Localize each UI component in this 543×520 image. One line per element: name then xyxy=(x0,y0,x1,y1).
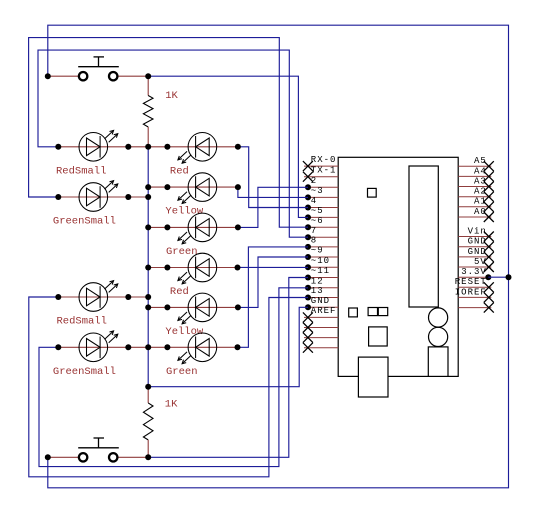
LED D7 Green symbol xyxy=(178,213,217,244)
wire: RedSmall1 to pin 7 xyxy=(38,50,308,237)
wire: Green2 to pin 8 xyxy=(238,247,309,347)
wire: middle rail (blue) between LED rows xyxy=(147,147,149,387)
svg-text:A5: A5 xyxy=(474,156,487,166)
U1 pin RX-0 no-connect X xyxy=(303,161,313,171)
wire: R2 bottom to pin ~11 xyxy=(148,278,308,458)
resistor R1 bottom lead xyxy=(147,127,149,147)
svg-text:RESET: RESET xyxy=(455,277,487,287)
U1 left pin NC stub xyxy=(304,347,338,349)
svg-text:Green: Green xyxy=(166,246,198,258)
svg-text:Yellow: Yellow xyxy=(165,326,204,338)
U1 left pin 12 stub xyxy=(308,287,338,289)
U1 crystal square xyxy=(369,327,388,346)
U1 left pin 2 stub xyxy=(308,186,338,188)
resistor R2 1K top lead xyxy=(147,387,149,403)
wire red: bottom button row left segment xyxy=(48,456,79,458)
U1 right pin Vin stub xyxy=(458,236,491,238)
LED D9 Yellow symbol xyxy=(178,293,217,324)
svg-text:1K: 1K xyxy=(165,399,178,411)
node: right rail / 3.3V xyxy=(506,274,512,280)
U1 pin NC no-connect X xyxy=(303,333,313,343)
U1 pin ~10 terminal dot xyxy=(305,264,311,270)
wire: R2 top to pin GND xyxy=(148,307,308,386)
U1 double square component xyxy=(368,308,388,316)
U1 right pin A1 stub xyxy=(458,206,491,208)
U1 pin GND no-connect X xyxy=(484,242,494,252)
wire: 3.3V rail from button S1 via top/right/bottom to button S2 xyxy=(48,25,509,488)
U1 pin ~9 terminal dot xyxy=(305,254,311,260)
svg-text:Yellow: Yellow xyxy=(165,206,204,218)
U1 pin A2 no-connect X xyxy=(484,192,494,202)
D2 cathode xyxy=(125,194,131,200)
U1 left pin ~6 stub xyxy=(308,226,338,228)
LED D2 GreenSmall symbol xyxy=(79,181,118,212)
node: R2 top / GND wire xyxy=(145,384,151,390)
D7 terminal xyxy=(235,224,241,230)
U1 right pin A2 stub xyxy=(458,196,491,198)
svg-text:3.3V: 3.3V xyxy=(461,267,487,277)
svg-text:2: 2 xyxy=(311,176,317,186)
U1 pin ~11 terminal dot xyxy=(305,275,311,281)
U1 pin 7 terminal dot xyxy=(305,234,311,240)
svg-text:4: 4 xyxy=(311,196,317,206)
U1 pin A3 no-connect X xyxy=(484,182,494,192)
U1 pin A4 no-connect X xyxy=(484,171,494,181)
U1 left pin GND stub xyxy=(308,306,338,308)
wire red: row Green1 xyxy=(148,226,238,228)
wire red: row Red2 xyxy=(148,267,237,269)
node: S1 left / 3.3V rail xyxy=(45,73,51,79)
U1 capacitor circle 2 xyxy=(429,327,448,346)
D5 terminal xyxy=(164,144,170,150)
U1 pin 12 terminal dot xyxy=(305,285,311,291)
wire red: row Yellow2 xyxy=(148,306,238,308)
rail junction row7 xyxy=(145,304,151,310)
U1 pin A0 no-connect X xyxy=(484,212,494,222)
resistor R1 1K zigzag xyxy=(143,96,153,128)
rail junction row3 xyxy=(145,194,151,200)
svg-text:12: 12 xyxy=(311,277,324,287)
wire: R1 top to pin ~5 xyxy=(148,76,308,217)
LED D5 Red symbol xyxy=(178,133,217,164)
U1 left pin ~5 stub xyxy=(308,216,338,218)
U1 ATmega chip rectangle xyxy=(409,166,438,307)
U1 pin ~6 terminal dot xyxy=(305,224,311,230)
wire: 3.3V pin stub to right rail xyxy=(488,276,508,278)
U1 left pin 8 stub xyxy=(308,246,338,248)
rail junction row6 xyxy=(145,294,151,300)
svg-text:GreenSmall: GreenSmall xyxy=(53,216,116,228)
U1 small square component (top) xyxy=(368,188,377,197)
rail junction row4 xyxy=(145,224,151,230)
U1 pin NC no-connect X xyxy=(484,303,494,313)
svg-text:~11: ~11 xyxy=(311,266,330,276)
U1 left pin 13 stub xyxy=(308,297,338,299)
svg-text:GreenSmall: GreenSmall xyxy=(53,366,116,378)
svg-text:RX-0: RX-0 xyxy=(311,155,337,165)
resistor R2 bottom lead xyxy=(147,440,149,457)
U1 right pin IOREF stub xyxy=(458,296,491,298)
LED D3 RedSmall symbol xyxy=(79,281,118,312)
node: S2 right / R2 bottom xyxy=(145,454,151,460)
node: S1 right / R1 top xyxy=(145,73,151,79)
svg-text:~5: ~5 xyxy=(311,206,324,216)
U1 pin ~5 terminal dot xyxy=(305,214,311,220)
U1 left pin NC stub xyxy=(304,327,338,329)
U1 pin 2 terminal dot xyxy=(305,184,311,190)
svg-text:Green: Green xyxy=(166,366,198,378)
LED D10 Green symbol xyxy=(178,333,217,364)
U1 right pin 5V stub xyxy=(458,266,491,268)
D9 terminal xyxy=(235,304,241,310)
rail junction row5 xyxy=(145,265,151,271)
svg-text:A1: A1 xyxy=(474,197,487,207)
U1 pin GND terminal dot xyxy=(305,304,311,310)
rail junction row1 xyxy=(145,144,151,150)
svg-text:GND: GND xyxy=(468,237,487,247)
wire: Yellow2 to pin ~9 xyxy=(238,257,308,307)
U1 right pin GND stub xyxy=(458,256,491,258)
U1 left pin NC stub xyxy=(304,337,338,339)
U1 pin TX-1 no-connect X xyxy=(303,172,313,182)
D8 terminal xyxy=(235,265,241,271)
svg-text:A2: A2 xyxy=(474,187,487,197)
svg-text:IOREF: IOREF xyxy=(455,287,487,297)
U1 power jack xyxy=(428,347,448,377)
rail junction row8 xyxy=(145,344,151,350)
wire: RedSmall2 to pin 13 xyxy=(29,297,308,477)
U1 pin A1 no-connect X xyxy=(484,202,494,212)
U1 pin AREF no-connect X xyxy=(303,312,313,322)
svg-text:Red: Red xyxy=(170,286,189,298)
svg-text:GND: GND xyxy=(311,296,330,306)
U1 capacitor circle 1 xyxy=(429,308,448,327)
U1 pin Vin no-connect X xyxy=(484,232,494,242)
svg-text:GND: GND xyxy=(468,247,487,257)
wire red: row GreenSmall1 xyxy=(58,196,148,198)
wire red: row Yellow1 xyxy=(148,186,238,188)
U1 pin A5 no-connect X xyxy=(484,161,494,171)
U1 pin 4 terminal dot xyxy=(305,205,311,211)
svg-text:13: 13 xyxy=(311,286,324,296)
svg-text:7: 7 xyxy=(311,226,317,236)
Arduino Uno board U1 outline xyxy=(338,157,458,376)
D1 anode xyxy=(55,144,61,150)
wire red: bottom button row right segment to R2 xyxy=(118,456,149,458)
U1 pin 8 terminal dot xyxy=(305,244,311,250)
wire: GreenSmall1 to pin ~6 xyxy=(29,38,308,228)
svg-text:~6: ~6 xyxy=(311,216,324,226)
svg-text:5V: 5V xyxy=(474,257,487,267)
U1 right pin A0 stub xyxy=(458,216,491,218)
U1 pin ~3 terminal dot xyxy=(305,194,311,200)
wire red: row RedSmall1+Red1 xyxy=(58,146,238,148)
svg-text:1K: 1K xyxy=(165,90,178,102)
push button S1 top xyxy=(78,57,119,81)
U1 left pin ~11 stub xyxy=(308,277,338,279)
svg-text:A4: A4 xyxy=(474,166,487,176)
svg-text:A3: A3 xyxy=(474,176,487,186)
U1 left pin 4 stub xyxy=(308,207,338,209)
svg-text:Vin: Vin xyxy=(468,226,487,236)
LED D6 Yellow symbol xyxy=(178,173,217,204)
U1 right pin A4 stub xyxy=(458,175,491,177)
D3 anode xyxy=(55,294,61,300)
wire: Red2 to pin ~10 xyxy=(238,266,309,268)
U1 right pin A3 stub xyxy=(458,186,491,188)
wire: Red1 to pin 4 xyxy=(238,147,308,208)
svg-text:AREF: AREF xyxy=(311,306,337,316)
U1 right pin A5 stub xyxy=(458,165,491,167)
U1 right pin 3.3V stub xyxy=(458,276,488,278)
svg-text:8: 8 xyxy=(311,236,317,246)
U1 left pin ~9 stub xyxy=(308,256,338,258)
U1 pin GND no-connect X xyxy=(484,252,494,262)
D6 terminal xyxy=(235,184,241,190)
node: S2 left / 3.3V rail xyxy=(45,454,51,460)
D3 cathode xyxy=(125,294,131,300)
wire: GreenSmall2 to pin 12 xyxy=(39,288,308,467)
svg-text:Red: Red xyxy=(170,166,189,178)
U1 pin 5V no-connect X xyxy=(484,262,494,272)
push button S2 bottom xyxy=(78,438,119,461)
U1 left pin TX-1 stub xyxy=(304,176,338,178)
LED D1 RedSmall symbol xyxy=(79,130,118,161)
LED D4 GreenSmall symbol xyxy=(79,331,118,362)
D6 terminal xyxy=(164,184,170,190)
wire: Yellow1 to pin ~3 xyxy=(238,187,308,197)
rail junction row2 xyxy=(145,184,151,190)
U1 right pin NC stub xyxy=(458,307,491,309)
svg-text:~3: ~3 xyxy=(311,186,324,196)
wire: Green1 to pin 2 xyxy=(238,187,308,227)
U1 right pin RESET stub xyxy=(458,286,491,288)
U1 pin RESET no-connect X xyxy=(484,282,494,292)
wire red: row RedSmall2 xyxy=(58,296,148,298)
resistor R1 1K top lead xyxy=(147,76,149,95)
U1 pin NC no-connect X xyxy=(303,323,313,333)
D9 terminal xyxy=(164,304,170,310)
U1 pin 13 terminal dot xyxy=(305,295,311,301)
U1 pin IOREF no-connect X xyxy=(484,292,494,302)
D1 cathode xyxy=(125,144,131,150)
svg-text:~9: ~9 xyxy=(311,246,324,256)
svg-text:RedSmall: RedSmall xyxy=(56,166,106,178)
D5 terminal xyxy=(235,144,241,150)
D10 terminal xyxy=(235,344,241,350)
wire red: row GreenSmall2+Green2 xyxy=(58,346,237,348)
U1 left pin ~10 stub xyxy=(308,266,338,268)
D7 terminal xyxy=(164,224,170,230)
wire red: top button row right segment to R1 xyxy=(118,75,149,77)
D2 anode xyxy=(55,194,61,200)
LED D8 Red symbol xyxy=(178,253,217,284)
svg-text:A0: A0 xyxy=(474,207,487,217)
U1 left pin ~3 stub xyxy=(308,196,338,198)
D4 cathode xyxy=(125,344,131,350)
wire red: top button row left segment xyxy=(48,75,79,77)
D8 terminal xyxy=(164,265,170,271)
resistor R2 1K zigzag xyxy=(143,403,153,440)
svg-text:RedSmall: RedSmall xyxy=(57,316,107,328)
U1 left pin 7 stub xyxy=(308,236,338,238)
D4 anode xyxy=(55,344,61,350)
svg-text:~10: ~10 xyxy=(311,256,330,266)
U1 left pin RX-0 stub xyxy=(304,165,338,167)
U1 right pin GND stub xyxy=(458,246,491,248)
U1 pin 3.3V terminal dot xyxy=(485,274,491,280)
U1 USB connector xyxy=(358,357,388,397)
svg-text:TX-1: TX-1 xyxy=(311,165,337,175)
D10 terminal xyxy=(164,344,170,350)
U1 pin NC no-connect X xyxy=(303,343,313,353)
U1 small square component (bottom left) xyxy=(349,308,358,317)
U1 left pin AREF stub xyxy=(304,316,338,318)
